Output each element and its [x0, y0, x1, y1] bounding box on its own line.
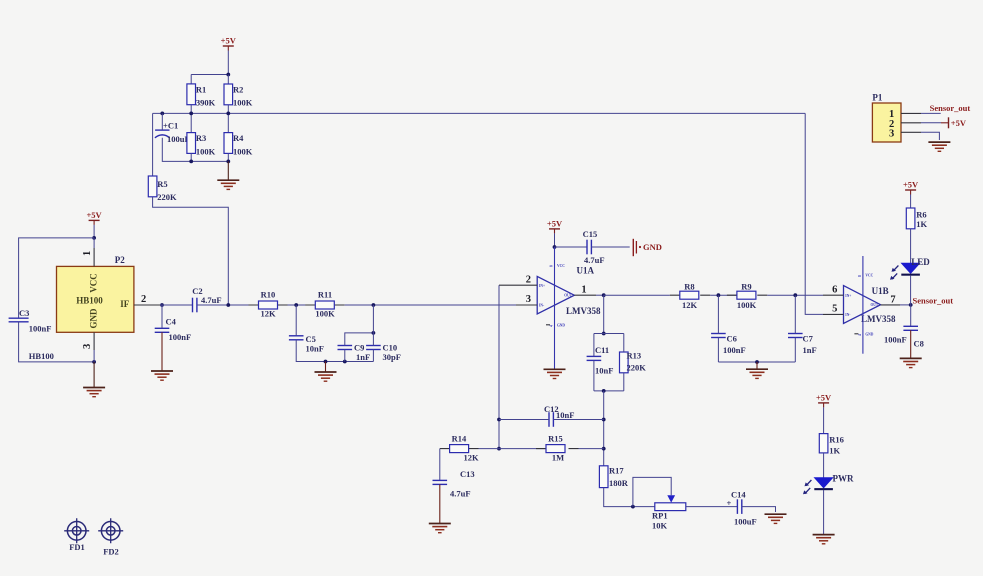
ground under U1A	[544, 369, 566, 378]
capacitor C12	[544, 404, 574, 427]
svg-text:100K: 100K	[196, 147, 216, 157]
svg-text:1: 1	[82, 251, 93, 256]
svg-text:4.7uF: 4.7uF	[584, 255, 605, 265]
svg-text:R17: R17	[609, 465, 624, 475]
svg-text:HB100: HB100	[76, 296, 103, 306]
svg-text:R4: R4	[233, 133, 244, 143]
svg-text:4: 4	[550, 325, 554, 327]
svg-text:+5V: +5V	[951, 118, 967, 128]
wire R14 to R15 row	[479, 448, 547, 450]
svg-text:GND: GND	[643, 242, 662, 252]
node R14-R15 tap	[497, 447, 501, 451]
node U1A output junction	[602, 293, 606, 297]
ground under PWR LED	[813, 535, 835, 544]
svg-text:3: 3	[526, 294, 531, 305]
wire R1 top feed	[190, 75, 192, 84]
capacitor C3	[9, 308, 52, 333]
node R15 right tap	[602, 447, 606, 451]
wire R2 top feed	[227, 75, 229, 85]
power port GND (bar style)	[633, 239, 662, 256]
wire wiper loop	[633, 477, 671, 506]
node C12 left tap	[497, 418, 501, 422]
svg-text:R13: R13	[627, 350, 642, 360]
resistor R16	[819, 434, 844, 456]
svg-text:R16: R16	[829, 434, 844, 444]
svg-text:12K: 12K	[260, 308, 276, 318]
svg-text:1M: 1M	[552, 452, 564, 462]
wire C2 to R10	[197, 304, 259, 306]
wire C15 to gnd port	[591, 246, 629, 248]
svg-text:P2: P2	[115, 255, 125, 265]
wire C8 to ground	[910, 330, 912, 358]
svg-text:7: 7	[890, 294, 895, 305]
svg-text:P1: P1	[872, 93, 882, 103]
power +5V (R16)	[816, 392, 832, 407]
svg-text:100uF: 100uF	[167, 134, 190, 144]
svg-text:100K: 100K	[737, 300, 757, 310]
svg-text:PWR: PWR	[833, 473, 854, 483]
wire out node to R8	[604, 294, 670, 296]
svg-text:220K: 220K	[157, 192, 177, 202]
svg-text:C13: C13	[460, 469, 475, 479]
connector P1	[872, 93, 901, 142]
wire vcc to C15	[555, 246, 588, 248]
resistor R14	[440, 434, 479, 463]
resistor R4	[224, 133, 253, 157]
wire C9 top link	[345, 333, 374, 362]
node C11-R13 top	[602, 332, 606, 336]
fiducial FD2	[98, 518, 123, 556]
svg-text:OUT: OUT	[564, 294, 572, 298]
svg-text:C10: C10	[383, 342, 398, 352]
svg-text:100K: 100K	[233, 147, 253, 157]
wire C10 branch	[372, 305, 374, 362]
wire fb vertical to R17	[603, 391, 605, 466]
resistor R2	[224, 84, 253, 107]
capacitor C8	[884, 326, 924, 348]
wire cap bus ground stub	[325, 362, 327, 373]
pin 3 P1	[901, 132, 939, 140]
wire R10 to R11	[288, 304, 316, 306]
wire out node to C8	[910, 305, 912, 326]
node R5 feed on rail	[226, 303, 230, 307]
net label Sensor_out (P1)	[930, 103, 971, 113]
wire R14 left to C13	[439, 449, 441, 481]
svg-text:C6: C6	[727, 333, 737, 343]
ground under cap bus	[315, 372, 337, 381]
svg-text:C8: C8	[914, 338, 924, 348]
resistor R10	[249, 290, 288, 319]
net label Sensor_out (U1B)	[913, 295, 954, 305]
node wiper tap	[631, 505, 635, 509]
node C9-C10 tap	[372, 303, 376, 307]
svg-text:R6: R6	[916, 210, 926, 220]
fiducial FD1	[64, 518, 89, 552]
capacitor C5	[289, 334, 324, 353]
svg-text:100nF: 100nF	[29, 323, 52, 333]
wire RP1 to C14	[686, 506, 737, 508]
ground under C8	[900, 358, 922, 367]
svg-text:12K: 12K	[682, 300, 698, 310]
ground under C4	[151, 371, 173, 380]
resistor R1	[187, 84, 216, 108]
pin 1 HB100	[82, 238, 94, 267]
node gnd tap C6-C7	[755, 360, 759, 364]
pin 1 P1	[901, 112, 941, 114]
capacitor C15	[583, 229, 605, 265]
svg-text:1: 1	[581, 284, 586, 295]
svg-text:RP1: RP1	[652, 511, 668, 521]
svg-text:R3: R3	[196, 133, 206, 143]
pin 2 P1	[901, 122, 941, 124]
svg-text:IN-: IN-	[845, 313, 851, 317]
svg-text:4.7uF: 4.7uF	[201, 295, 222, 305]
node R3 bottom	[189, 160, 193, 164]
pin 5 U1B	[823, 304, 844, 315]
svg-text:4: 4	[858, 334, 862, 336]
svg-text:5: 5	[832, 304, 837, 315]
power +5V (U1A)	[547, 218, 563, 233]
pin 3 HB100	[82, 332, 94, 362]
resistor R17	[599, 465, 628, 487]
svg-text:R11: R11	[318, 290, 332, 300]
wire bus gnd stub	[756, 362, 758, 369]
net label HB100	[29, 351, 54, 361]
node HB100 vcc junction	[92, 236, 96, 240]
wire R5 bottom to C2 node	[153, 197, 229, 305]
svg-text:C9: C9	[354, 342, 364, 352]
wire R4 bottom stub	[227, 153, 229, 161]
wire C11-R13 bottom bar	[594, 390, 624, 392]
capacitor C4	[155, 316, 191, 341]
node C9 bottom tap	[343, 360, 347, 364]
svg-text:C3: C3	[19, 308, 29, 318]
svg-text:IN+: IN+	[845, 294, 851, 298]
wire C6-C7 ground bus	[718, 361, 795, 363]
svg-text:1K: 1K	[916, 219, 927, 229]
ground under C13	[429, 524, 451, 533]
pin 2 U1A	[499, 274, 537, 285]
wire C4 to ground	[161, 332, 163, 371]
svg-text:+5V: +5V	[903, 180, 919, 190]
node R1-R3 tap	[189, 112, 193, 116]
node Sensor_out junction	[909, 303, 913, 307]
wire C11/R13 top feed	[603, 295, 605, 333]
op-amp U1A	[537, 265, 601, 315]
resistor R13	[620, 334, 647, 391]
wire +5V stub U1A	[554, 233, 556, 247]
svg-text:LMV358: LMV358	[566, 306, 601, 316]
svg-text:30pF: 30pF	[383, 352, 401, 362]
svg-text:R14: R14	[452, 434, 467, 444]
op-amp U1B	[844, 286, 896, 324]
wire U1B power pin line	[854, 256, 873, 354]
svg-text:R1: R1	[196, 85, 206, 95]
svg-text:R5: R5	[157, 179, 167, 189]
capacitor C10	[366, 342, 401, 362]
svg-text:6: 6	[832, 284, 837, 295]
resistor R8	[670, 281, 710, 310]
ground at P1 pin3	[928, 142, 950, 151]
capacitor C1 (electrolytic)	[155, 121, 190, 144]
svg-text:+C1: +C1	[163, 121, 178, 131]
resistor R6	[906, 208, 927, 229]
svg-text:8: 8	[858, 275, 862, 277]
svg-text:10nF: 10nF	[556, 410, 574, 420]
svg-text:IN+: IN+	[539, 284, 545, 288]
wire U1A power pin line	[546, 247, 565, 369]
node C12 right tap	[602, 418, 606, 422]
svg-text:R9: R9	[741, 281, 751, 291]
wire mid bus y113 with long feedback to U1B pin5	[153, 112, 806, 114]
potentiometer RP1	[652, 495, 686, 530]
pin 2 HB100	[134, 294, 160, 305]
wire feedback net pin2 vertical	[498, 285, 500, 448]
node C5 tap	[294, 303, 298, 307]
svg-text:3: 3	[889, 128, 894, 139]
node IF-C4 junction	[160, 303, 164, 307]
wire C11-R13 top bar	[594, 333, 624, 335]
capacitor C9	[338, 342, 371, 362]
svg-text:R15: R15	[548, 434, 563, 444]
wire C14 to ground	[742, 507, 776, 512]
svg-text:C7: C7	[803, 333, 814, 343]
wire HB100 gnd stub	[93, 362, 95, 388]
svg-text:100nF: 100nF	[884, 334, 907, 344]
svg-text:390K: 390K	[196, 97, 216, 107]
resistor R15	[536, 434, 579, 463]
svg-text:4.7uF: 4.7uF	[450, 488, 471, 498]
wire R11 to U1A pin3 rail	[345, 304, 516, 306]
wire R16 to PWR LED	[823, 453, 825, 478]
resistor R3	[187, 133, 216, 157]
wire C3 top loop	[19, 238, 95, 318]
svg-text:Sensor_out: Sensor_out	[913, 295, 954, 305]
svg-text:100nF: 100nF	[169, 332, 192, 342]
svg-text:R8: R8	[684, 281, 694, 291]
svg-text:HB100: HB100	[29, 351, 54, 361]
svg-text:10nF: 10nF	[595, 365, 613, 375]
svg-text:2: 2	[141, 294, 146, 305]
node gnd tap on cap bus	[324, 360, 328, 364]
node HB100 gnd junction	[92, 360, 96, 364]
wire left branch down to R5	[152, 113, 154, 176]
capacitor C2	[192, 286, 221, 312]
svg-text:U1A: U1A	[577, 265, 595, 275]
svg-text:10nF: 10nF	[306, 344, 324, 354]
wire feedback down to pin5	[805, 113, 823, 314]
svg-text:+5V: +5V	[547, 218, 563, 228]
wire +5V stub to ladder junction	[227, 51, 229, 75]
svg-text:GND: GND	[865, 333, 873, 337]
svg-text:1K: 1K	[829, 446, 840, 456]
capacitor C7	[788, 295, 817, 362]
svg-text:C11: C11	[595, 345, 609, 355]
svg-text:220K: 220K	[627, 362, 647, 372]
power +5V (top ladder)	[221, 36, 237, 51]
node C10 top tap	[372, 331, 376, 335]
svg-text:+5V: +5V	[86, 210, 102, 220]
resistor R11	[305, 290, 344, 319]
pin 1 U1A output	[574, 284, 596, 295]
power +5V (R6)	[903, 180, 919, 195]
svg-text:2: 2	[526, 274, 531, 285]
svg-text:GND: GND	[557, 324, 565, 328]
capacitor C6	[711, 295, 746, 362]
node C11-R13 bottom	[602, 389, 606, 393]
LED PWR	[803, 473, 854, 494]
svg-text:R2: R2	[233, 85, 243, 95]
wire C4 top stub	[161, 305, 163, 328]
svg-text:+5V: +5V	[221, 36, 237, 46]
wire R1 bottom to node row	[190, 105, 192, 133]
node C6 tap	[717, 293, 721, 297]
node R2-R4 tap	[226, 112, 230, 116]
svg-text:FD2: FD2	[103, 546, 119, 556]
svg-text:Sensor_out: Sensor_out	[930, 103, 971, 113]
svg-text:VCC: VCC	[88, 273, 98, 293]
wire IF node to C2	[160, 304, 193, 306]
ground under HB100	[83, 388, 105, 397]
svg-text:100K: 100K	[233, 97, 253, 107]
wire R2 bottom to node row	[227, 105, 229, 133]
wire C3 bottom loop	[19, 322, 95, 362]
wire PWR LED to ground	[823, 490, 825, 535]
svg-text:+5V: +5V	[816, 392, 832, 402]
svg-text:U1B: U1B	[872, 286, 889, 296]
svg-text:180R: 180R	[609, 478, 629, 488]
capacitor C11	[587, 334, 614, 391]
wire U1B out to node	[900, 304, 911, 306]
node C7 tap	[793, 293, 797, 297]
wire +5V stub HB100	[93, 225, 95, 238]
svg-text:LMV358: LMV358	[861, 314, 896, 324]
LED D1	[890, 257, 930, 280]
svg-text:100nF: 100nF	[723, 345, 746, 355]
svg-text:C14: C14	[731, 489, 746, 499]
ground under R4	[217, 180, 239, 189]
svg-text:GND: GND	[88, 308, 98, 329]
svg-text:12K: 12K	[463, 452, 479, 462]
pin 3 U1A	[516, 294, 537, 305]
node ladder top junction	[226, 73, 230, 77]
wire C12 row	[499, 419, 604, 421]
ground right of C14	[765, 514, 787, 523]
wire ladder top horizontal	[191, 74, 228, 76]
svg-text:C15: C15	[583, 229, 598, 239]
svg-text:+: +	[727, 498, 732, 508]
svg-text:OUT: OUT	[871, 303, 879, 307]
chip P2 HB100	[57, 255, 134, 332]
wire to ground under R4	[227, 161, 229, 180]
pin 7 U1B output	[881, 294, 900, 305]
wire C1 top stub	[161, 113, 163, 130]
wire +5V to R16	[823, 407, 825, 433]
svg-text:10K: 10K	[652, 520, 668, 530]
wire U1A out to node	[596, 294, 604, 296]
svg-text:FD1: FD1	[69, 542, 85, 552]
wire LED to out node	[910, 275, 912, 305]
pin 6 U1B	[823, 284, 844, 295]
svg-text:1nF: 1nF	[803, 345, 817, 355]
svg-text:8: 8	[550, 265, 554, 267]
ground under C6-C7	[746, 369, 768, 378]
svg-text:LED: LED	[911, 257, 930, 267]
resistor R9	[727, 281, 767, 310]
wire C13 to ground	[439, 484, 441, 523]
wire R9 to U1B pin6	[767, 294, 823, 296]
node U1A vcc junction	[553, 245, 557, 249]
power +5V (HB100)	[86, 210, 102, 225]
svg-text:IF: IF	[120, 299, 130, 309]
svg-text:VCC: VCC	[865, 274, 873, 278]
node R4 bottom	[226, 160, 230, 164]
capacitor C13	[433, 469, 475, 498]
capacitor C14 (electrolytic)	[727, 489, 757, 526]
svg-text:R10: R10	[261, 290, 276, 300]
wire R17 bottom to RP1	[604, 488, 655, 507]
svg-text:3: 3	[82, 344, 93, 349]
power +5V (P1 pin2 horizontal)	[941, 117, 967, 128]
svg-text:1nF: 1nF	[356, 352, 370, 362]
wire R3 bottom stub	[190, 153, 192, 161]
wire R8 to R9	[710, 294, 737, 296]
wire R6 to LED	[910, 229, 912, 263]
wire R15 to node	[579, 448, 604, 450]
node C1 top tap	[160, 112, 164, 116]
wire C5 branch	[296, 305, 373, 362]
svg-text:100uF: 100uF	[734, 516, 757, 526]
resistor R5	[148, 176, 177, 202]
svg-text:C4: C4	[166, 316, 177, 326]
wire C1 bottom to gnd bus	[162, 138, 228, 162]
svg-text:IN-: IN-	[539, 304, 545, 308]
wire +5V to R6	[910, 195, 912, 209]
svg-text:VCC: VCC	[557, 264, 565, 268]
svg-text:100K: 100K	[315, 308, 335, 318]
